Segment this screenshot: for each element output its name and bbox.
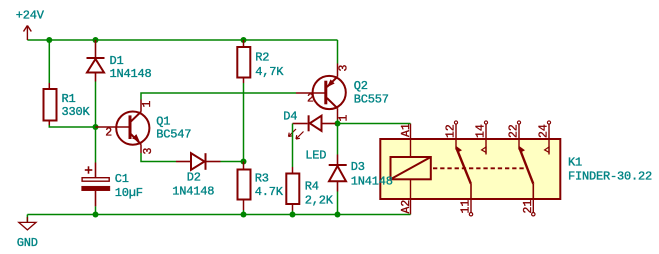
svg-text:12: 12 (445, 124, 458, 138)
transistor Q2 (296, 64, 346, 120)
relay pin 11 (469, 199, 472, 216)
junction at D1 top (93, 37, 99, 43)
junction D3 at ground rail (335, 212, 341, 218)
junction at Q1 base node (93, 124, 99, 130)
relay K1 body (380, 139, 560, 199)
svg-text:22: 22 (508, 124, 521, 138)
transistor Q1 base pin (96, 126, 130, 128)
svg-text:14: 14 (475, 124, 488, 138)
junction at R2 top rail (241, 37, 247, 43)
svg-text:R4: R4 (305, 179, 319, 193)
capacitor C1 (82, 163, 110, 207)
diode D1 (87, 40, 105, 82)
svg-text:R2: R2 (255, 50, 269, 64)
wire: collector node down to D3 (337, 124, 339, 155)
wire: R1 branch from top rail (48, 40, 50, 83)
svg-text:4.7K: 4.7K (255, 185, 284, 199)
svg-text:C1: C1 (115, 172, 129, 186)
svg-text:+24V: +24V (16, 8, 45, 22)
wire: Q2 collector to node (337, 120, 339, 124)
relay contact 1 lever (456, 146, 471, 199)
junction R3 at ground rail (241, 212, 247, 218)
junction at R1 top (46, 37, 52, 43)
diode D3 (329, 155, 347, 192)
svg-text:3: 3 (338, 65, 351, 72)
wire: D4 cathode down to R4 (292, 124, 294, 168)
svg-text:K1: K1 (568, 156, 582, 170)
junction C1 at ground rail (93, 212, 99, 218)
transistor Q1 (116, 100, 149, 154)
svg-text:2: 2 (307, 93, 314, 106)
resistor R3 (238, 162, 251, 211)
svg-text:1: 1 (337, 115, 350, 122)
wire: R4 to ground rail (292, 211, 294, 215)
wire: top rail corner down to Q2 emitter (337, 40, 339, 64)
relay contact 2 lever (519, 146, 534, 199)
wire: D1 anode down to base node (95, 82, 97, 128)
svg-text:FINDER-30.22: FINDER-30.22 (568, 170, 652, 184)
svg-text:Q2: Q2 (354, 79, 368, 93)
junction R4 at ground rail (290, 212, 296, 218)
relay pin 12 (454, 121, 457, 150)
svg-text:D2: D2 (187, 170, 201, 184)
junction at D2/R3 node (241, 159, 247, 165)
svg-text:GND: GND (17, 236, 38, 250)
svg-text:21: 21 (522, 200, 535, 214)
relay pin 14 fixed contact (482, 121, 488, 155)
svg-text:3: 3 (142, 148, 155, 155)
svg-text:R1: R1 (62, 92, 76, 106)
resistor R1 (44, 83, 57, 125)
wire: ground rail (27, 214, 410, 216)
svg-text:A1: A1 (400, 123, 413, 137)
svg-text:Q1: Q1 (156, 114, 170, 128)
junction at Q2 collector node (335, 121, 341, 127)
svg-text:A2: A2 (400, 200, 413, 214)
wire: D3 anode to ground rail (337, 192, 339, 215)
wire: node to relay A1 (338, 123, 411, 125)
svg-text:4,7K: 4,7K (255, 65, 284, 79)
svg-text:D3: D3 (351, 160, 365, 174)
relay pin 24 fixed contact (545, 121, 551, 155)
svg-text:D1: D1 (110, 54, 124, 68)
wire: +24V rail top (27, 39, 337, 41)
power symbol +24V (24, 26, 32, 41)
ground symbol (19, 215, 36, 230)
relay pin A2 (410, 179, 412, 214)
svg-text:2: 2 (105, 127, 112, 140)
resistor R2 (237, 40, 250, 83)
svg-text:LED: LED (305, 148, 326, 162)
wire: R1 bottom to Q1 base node (49, 125, 95, 127)
LED D4 emission arrows (289, 129, 304, 139)
relay pin 21 (532, 199, 535, 216)
diode D2 (176, 153, 221, 170)
wire: R3 to ground rail (243, 210, 245, 215)
svg-text:10µF: 10µF (115, 186, 143, 200)
wire: base node to C1 (95, 127, 97, 163)
svg-text:BC557: BC557 (354, 92, 389, 106)
svg-text:2,2K: 2,2K (305, 193, 334, 207)
svg-text:1N4148: 1N4148 (172, 184, 214, 198)
svg-text:D4: D4 (283, 109, 297, 123)
svg-text:330K: 330K (62, 105, 91, 119)
LED D4 (293, 115, 338, 131)
wire: Q1 emitter to D2 (141, 153, 176, 162)
svg-text:24: 24 (538, 124, 551, 138)
resistor R4 (286, 167, 299, 211)
svg-text:1: 1 (141, 101, 154, 108)
svg-text:BC547: BC547 (156, 127, 191, 141)
svg-text:1N4148: 1N4148 (110, 67, 152, 81)
svg-text:11: 11 (460, 200, 473, 214)
relay pin A1 (410, 124, 412, 158)
relay pin 22 (517, 121, 520, 150)
wire: D2 cathode to R2/R3 node (221, 161, 244, 163)
svg-text:R3: R3 (255, 171, 269, 185)
relay K1 dashed actuator line (433, 167, 527, 169)
relay K1 coil (391, 157, 431, 179)
wire: Q1 collector riser and cross wire to Q2 base (141, 93, 296, 100)
wire: C1 to ground rail (95, 206, 97, 214)
wire: R2 bottom to D2/R3 node (crosses collector wire) (243, 83, 245, 162)
svg-text:1N4148: 1N4148 (351, 174, 393, 188)
